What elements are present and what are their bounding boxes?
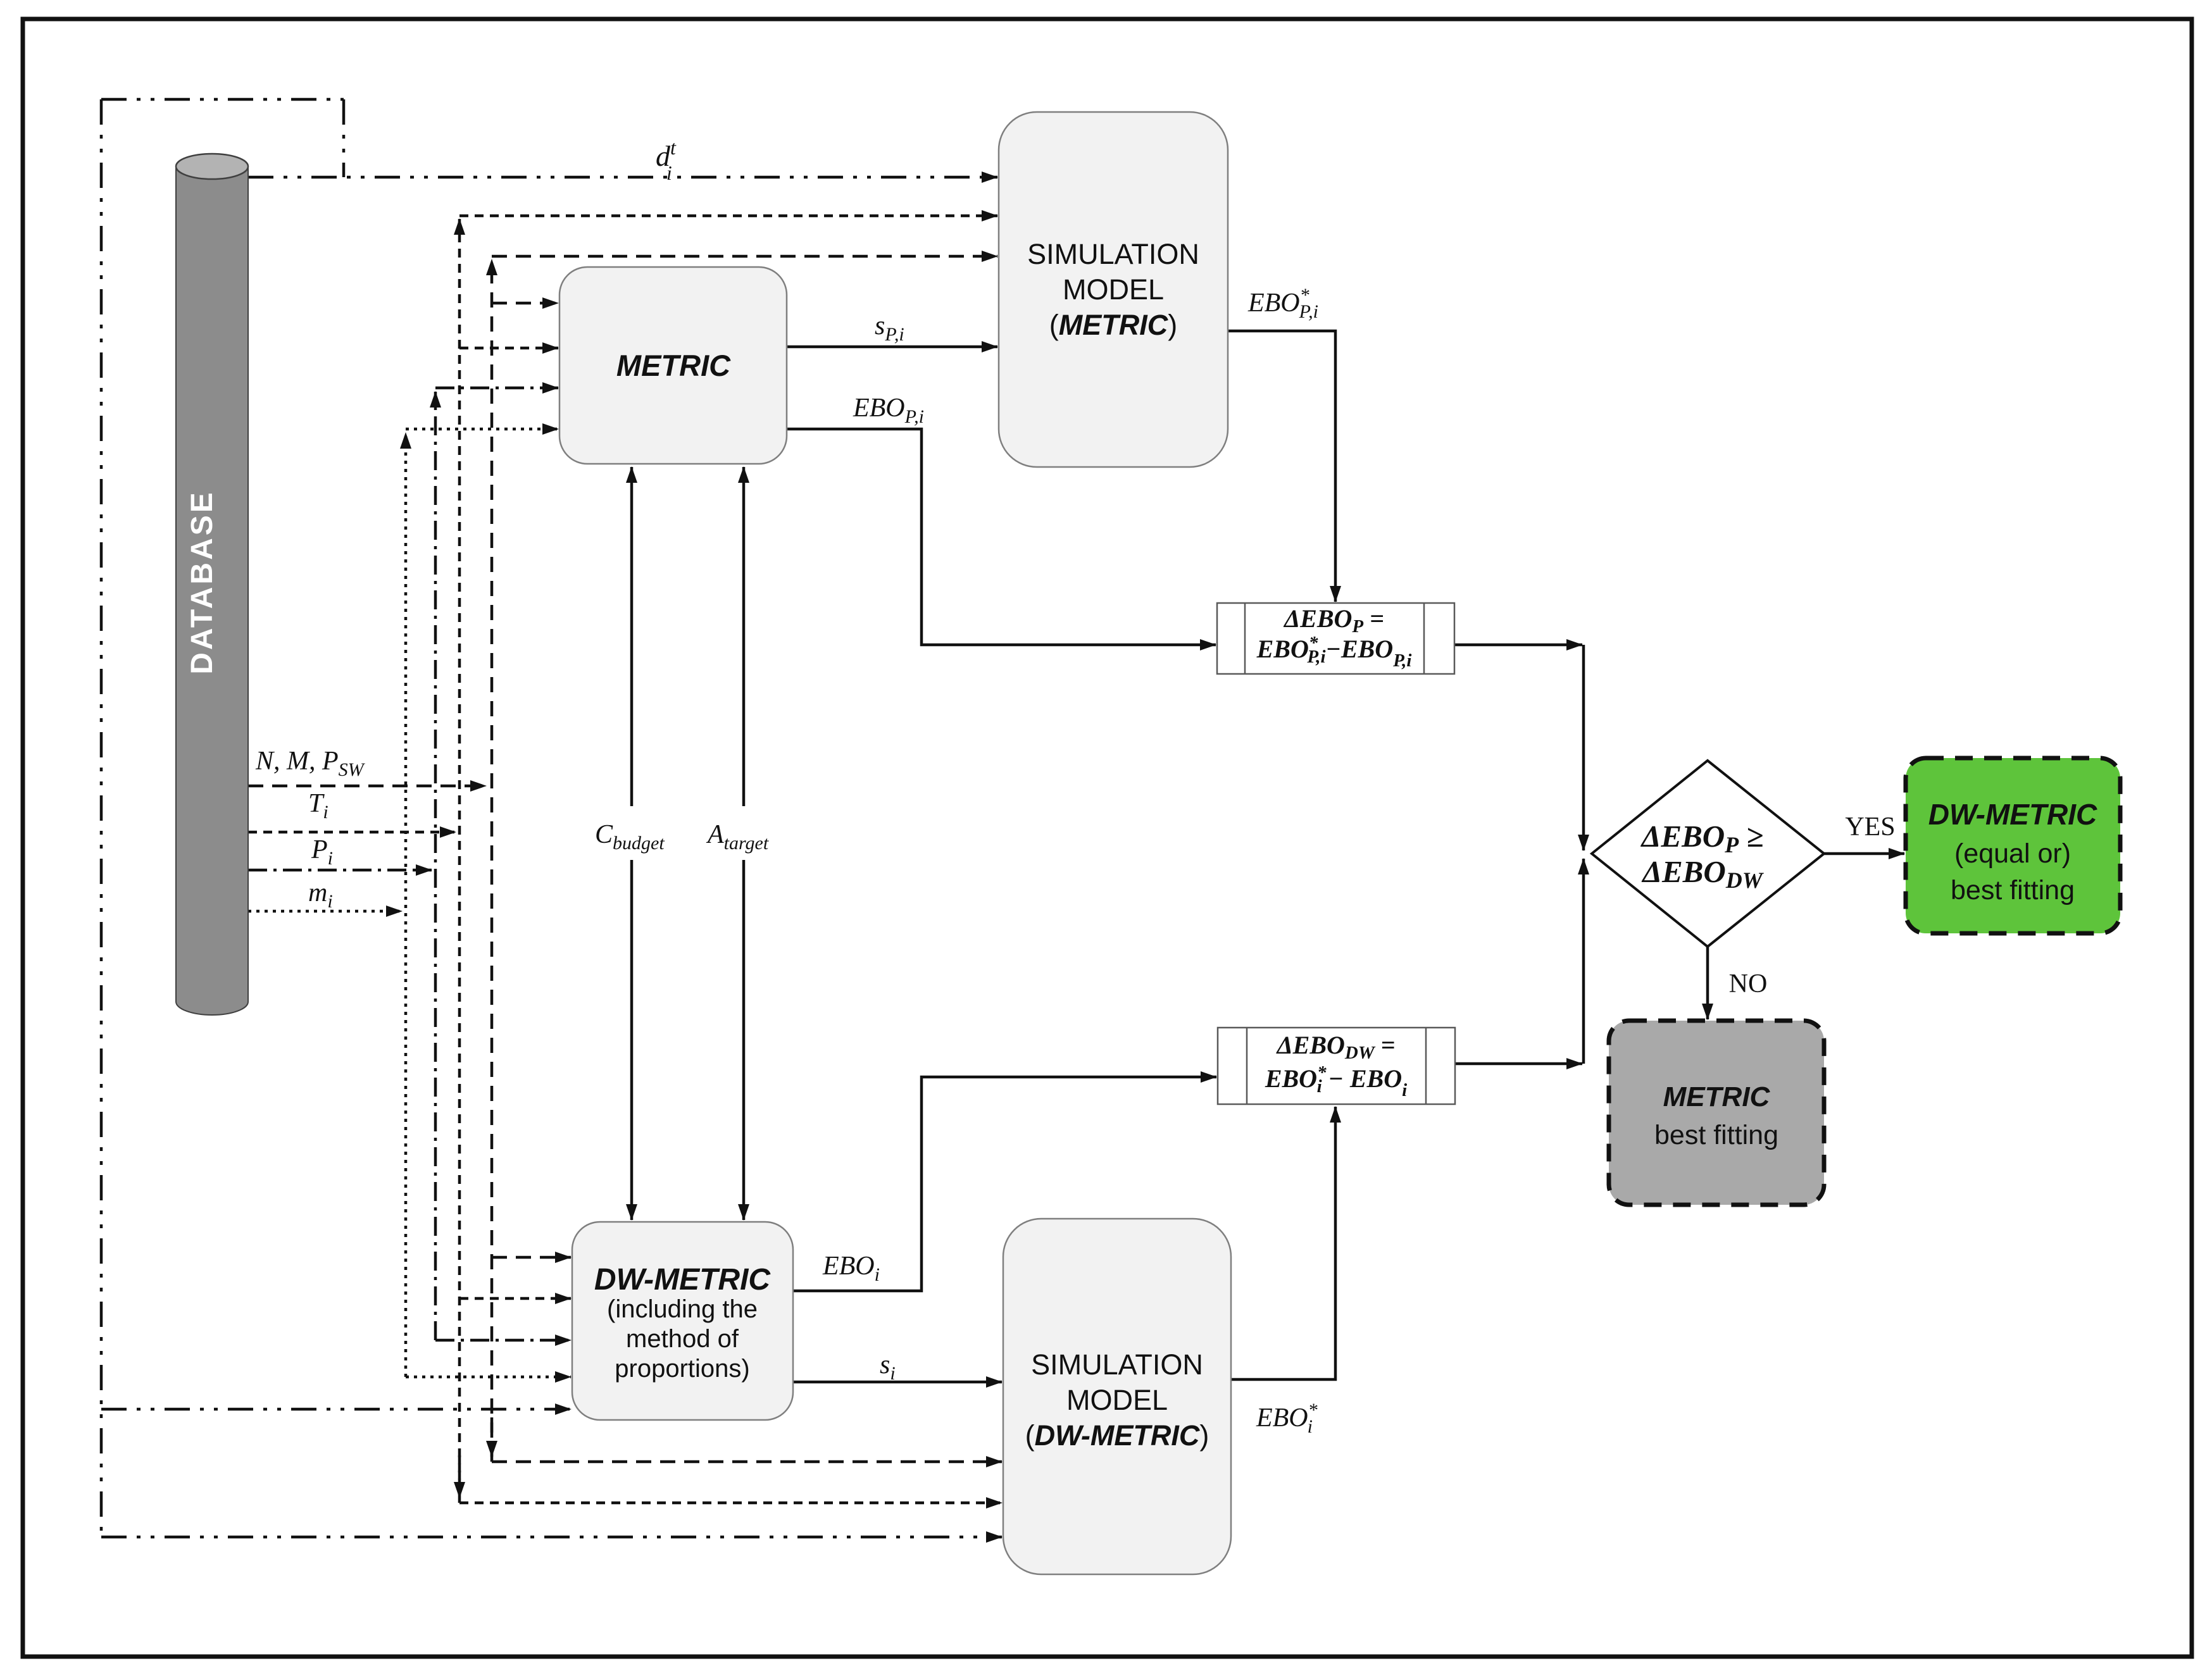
wire d_i^t loop short vertical xyxy=(342,99,346,177)
process box SIMULATION MODEL (METRIC) xyxy=(999,112,1228,467)
svg-text:best fitting: best fitting xyxy=(1951,875,2075,905)
svg-text:ΔEBOP =: ΔEBOP = xyxy=(1283,604,1384,637)
svg-text:YES: YES xyxy=(1845,812,1895,842)
wire m_i from DATABASE to bus D xyxy=(248,910,402,913)
wire B into DW-METRIC xyxy=(492,1256,571,1259)
wire D into DW-METRIC xyxy=(406,1376,571,1379)
wire T_i from DATABASE to bus A xyxy=(248,831,456,834)
wire delta-EBO_P output down to diamond xyxy=(1582,645,1585,850)
svg-text:DATABASE: DATABASE xyxy=(185,490,219,675)
wire A_target down into DW-METRIC xyxy=(742,860,746,1220)
wire B corner arrow down xyxy=(491,1417,494,1457)
wire s_i DW-METRIC to SIMULATION MODEL (DW-METRIC) xyxy=(793,1381,1002,1384)
wire EBO_i* SIMULATION MODEL (DW-METRIC) to delta-EBO_DW box xyxy=(1231,1107,1335,1379)
svg-text:DW-METRIC: DW-METRIC xyxy=(1928,798,2097,831)
predefined-process box delta-EBO_P xyxy=(1217,603,1454,674)
svg-text:(equal or): (equal or) xyxy=(1954,838,2071,869)
wire B bottom into SIMULATION MODEL (DW-METRIC) xyxy=(492,1460,1002,1464)
wire delta-EBO_P output horizontal xyxy=(1454,644,1582,647)
wire EBO_P,i METRIC to delta-EBO_P box xyxy=(787,429,1216,645)
svg-text:(METRIC): (METRIC) xyxy=(1049,309,1178,341)
svg-text:EBO*P,i: EBO*P,i xyxy=(1247,285,1318,322)
wire C into METRIC xyxy=(435,387,558,390)
svg-text:EBO*i: EBO*i xyxy=(1256,1400,1318,1437)
bus C vertical (P_i) xyxy=(434,392,437,1340)
wire C_budget down into DW-METRIC xyxy=(630,860,634,1220)
wire delta-EBO_DW output horizontal xyxy=(1455,1062,1582,1066)
wire YES diamond to green box xyxy=(1824,852,1904,856)
svg-text:DW-METRIC: DW-METRIC xyxy=(594,1263,771,1297)
wire A top into SIMULATION MODEL (METRIC) xyxy=(459,215,997,218)
svg-text:METRIC: METRIC xyxy=(1663,1081,1771,1112)
wire C_budget up into METRIC xyxy=(630,467,634,806)
wire D into METRIC xyxy=(406,428,558,431)
wire s_P,i METRIC to SIMULATION MODEL (METRIC) xyxy=(787,345,997,349)
bus D vertical (m_i) xyxy=(404,433,408,1377)
decision diamond delta-EBO_P >= delta-EBO_DW xyxy=(1592,761,1824,947)
wire C into DW-METRIC xyxy=(435,1339,571,1342)
wire A corner arrow down xyxy=(458,1455,461,1498)
wire EBO_i DW-METRIC to delta-EBO_DW box xyxy=(793,1077,1216,1291)
wire B top into SIMULATION MODEL (METRIC) xyxy=(492,255,997,258)
wire delta-EBO_DW output up to diamond xyxy=(1582,859,1585,1064)
svg-text:METRIC: METRIC xyxy=(616,349,731,382)
wire d_i^t main to SIMULATION MODEL (METRIC) xyxy=(248,176,997,179)
database cylinder DATABASE xyxy=(176,154,248,1015)
wire d_i^t loop left vertical xyxy=(100,99,103,1537)
wire d_i^t loop top horizontal xyxy=(101,98,344,101)
svg-text:(including the: (including the xyxy=(607,1295,758,1323)
svg-text:best fitting: best fitting xyxy=(1654,1120,1778,1150)
wire A bottom into SIMULATION MODEL (DW-METRIC) xyxy=(459,1502,1002,1505)
wire A into METRIC xyxy=(459,347,558,350)
svg-text:method of: method of xyxy=(626,1325,739,1353)
wire B into METRIC xyxy=(492,302,558,305)
wire P_i from DATABASE to bus C xyxy=(248,869,432,872)
svg-text:(DW-METRIC): (DW-METRIC) xyxy=(1025,1419,1209,1452)
bus A vertical (T_i) xyxy=(458,219,461,1503)
svg-text:SIMULATION: SIMULATION xyxy=(1027,238,1199,270)
terminal box METRIC best fitting (gray) xyxy=(1609,1021,1824,1205)
svg-text:NO: NO xyxy=(1729,969,1768,999)
wire d_i^t tee into DW-METRIC xyxy=(101,1408,571,1411)
process box SIMULATION MODEL (DW-METRIC) xyxy=(1003,1219,1231,1574)
svg-text:SIMULATION: SIMULATION xyxy=(1031,1348,1203,1381)
svg-text:ΔEBODW =: ΔEBODW = xyxy=(1276,1031,1396,1063)
svg-text:MODEL: MODEL xyxy=(1063,273,1164,306)
wire NO diamond to gray box xyxy=(1706,947,1709,1019)
bus B vertical (N,M,Psw) xyxy=(491,259,494,1462)
svg-text:EBOi: EBOi xyxy=(822,1252,880,1285)
svg-text:ΔEBOP ≥: ΔEBOP ≥ xyxy=(1640,819,1764,857)
predefined-process box delta-EBO_DW xyxy=(1218,1028,1455,1104)
process box DW-METRIC (including the method of proportions) xyxy=(572,1222,793,1420)
wire A_target up into METRIC xyxy=(742,467,746,806)
wire EBO*_P,i SIMULATION MODEL (METRIC) to delta-EBO_P box xyxy=(1228,331,1335,602)
wire A into DW-METRIC xyxy=(459,1297,571,1300)
terminal box DW-METRIC (equal or) best fitting (green) xyxy=(1906,758,2120,933)
process box METRIC xyxy=(559,267,787,464)
svg-text:MODEL: MODEL xyxy=(1066,1384,1168,1416)
svg-text:proportions): proportions) xyxy=(615,1355,749,1383)
wire d_i^t bottom into SIMULATION MODEL (DW-METRIC) xyxy=(101,1536,1002,1539)
wire N,M,Psw from DATABASE to bus B xyxy=(248,785,486,788)
